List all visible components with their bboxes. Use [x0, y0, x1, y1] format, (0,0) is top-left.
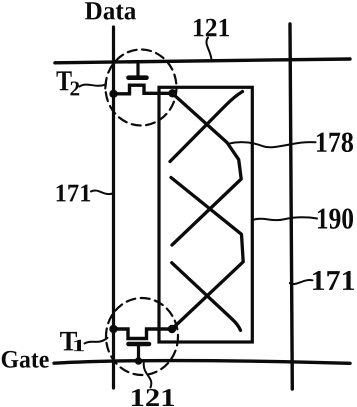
label 121 (bottom) [132, 389, 174, 406]
leader line for left 171 [91, 190, 113, 194]
reflector zigzag 178: upper cross diagonal [170, 92, 243, 162]
node: T1 gate dot on gate line [135, 357, 143, 365]
label 190 [318, 209, 353, 229]
leader tick at T2 circle [104, 82, 107, 89]
reflector zigzag 178: lower cross diagonal [172, 263, 241, 331]
node: T2 drain dot [168, 89, 176, 97]
label Data [85, 2, 136, 19]
node: T2 source dot on data line [109, 90, 117, 98]
transistor T1: channel (source-drain) [114, 329, 173, 339]
label 171 (right) [313, 271, 354, 290]
label 171 (left) [57, 185, 91, 202]
transistor T1: gate bar [129, 342, 150, 347]
wire: right data line 171 [290, 24, 292, 389]
leader line for top 121 [206, 38, 211, 59]
leader line for T1 [85, 338, 108, 344]
leader line for 178 [228, 142, 316, 147]
wire: top gate line (121) [55, 59, 350, 63]
dashed circle around T2 [106, 50, 177, 126]
reflector zigzag 178: upper serpentine from T2 drain [172, 94, 241, 246]
label T2 letter T [57, 71, 72, 90]
wire: data line 171 (left vertical) [112, 27, 115, 388]
label T1 subscript 1 [74, 340, 84, 351]
leader line for bottom 121 [144, 363, 152, 388]
pixel electrode rectangle 190 [159, 87, 252, 342]
wire: bottom gate line (121) [54, 361, 350, 364]
leader line for 190 [253, 217, 318, 220]
label 121 (top) [194, 19, 229, 36]
label Gate [2, 351, 49, 368]
node: T1 source dot on data line [109, 325, 117, 333]
transistor T1: gate stub [137, 344, 140, 362]
label T2 subscript 2 [70, 82, 79, 96]
reflector zigzag 178: lower serpentine into T1 drain [171, 178, 243, 329]
label 178 [317, 133, 353, 153]
node: T1 drain dot [168, 325, 176, 333]
leader line for right 171 [290, 280, 313, 284]
leader line for T2 [80, 85, 106, 87]
label T1 letter T [60, 332, 77, 351]
dashed circle around T1 [106, 298, 178, 375]
transistor T2: gate stub [136, 62, 139, 77]
transistor T2: gate bar [129, 75, 147, 80]
transistor T2: channel (source-drain) [114, 85, 173, 94]
